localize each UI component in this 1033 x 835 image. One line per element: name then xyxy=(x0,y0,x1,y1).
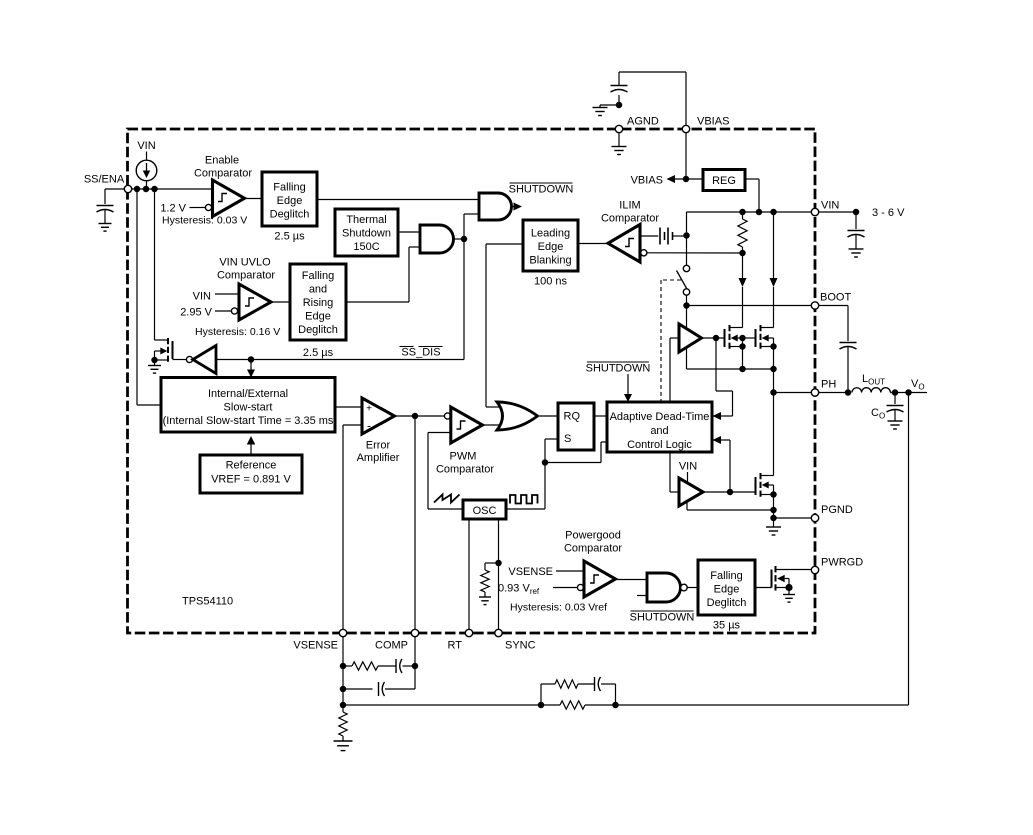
svg-text:and: and xyxy=(309,284,327,296)
hysteresis glyph xyxy=(625,239,634,247)
label VIN UVLO Comparator xyxy=(217,257,275,282)
resistor R2 (feedback lower) xyxy=(339,712,347,736)
wire xyxy=(847,347,849,393)
transistor Q_SS (soft-start discharge FET) xyxy=(155,338,173,365)
svg-text:SHUTDOWN: SHUTDOWN xyxy=(630,612,695,624)
wire SS/ENA external xyxy=(105,189,127,204)
ground (VBIAS cap) xyxy=(593,105,608,116)
wire xyxy=(343,665,352,667)
switch (ILIM controlled) xyxy=(677,265,690,295)
wire xyxy=(890,392,927,394)
label Enable Comparator xyxy=(194,155,252,180)
svg-text:Internal/External: Internal/External xyxy=(208,388,288,400)
label BOOT xyxy=(820,292,851,304)
bubble (inverting input) xyxy=(205,204,211,210)
svg-text:Deglitch: Deglitch xyxy=(298,324,338,336)
driver U_HS (high-side gate driver) xyxy=(679,324,702,352)
wire deglitch to AND xyxy=(317,199,479,201)
pin PH xyxy=(811,389,818,396)
label VIN (uvlo input) xyxy=(193,291,211,303)
wire uvlo deglitch to AND xyxy=(346,247,420,302)
label LOUT xyxy=(862,373,885,387)
wire xyxy=(686,236,688,266)
op-amp U_UVLO (VIN UVLO comparator) xyxy=(239,284,271,320)
wire xyxy=(687,587,698,589)
wire with arrow (VIN to FET2 drain) xyxy=(770,212,778,328)
block OSC xyxy=(463,500,506,519)
wire VSENSE external xyxy=(342,637,344,712)
svg-text:PWM: PWM xyxy=(450,451,477,463)
wire feedback bottom xyxy=(343,704,541,706)
wire REG to VIN rail xyxy=(745,179,759,212)
op-amp U_PG (powergood comparator) xyxy=(584,561,616,597)
wire S input path xyxy=(545,439,558,463)
transistor Q3 (low-side NFET) xyxy=(756,473,774,497)
hysteresis glyph xyxy=(245,298,254,306)
label VIN xyxy=(821,200,839,212)
capacitor C_P (comp pole) xyxy=(379,682,385,696)
svg-text:3 - 6 V: 3 - 6 V xyxy=(872,207,905,219)
svg-text:and: and xyxy=(650,425,668,437)
label VIN (current source supply) xyxy=(137,140,155,152)
svg-text:Comparator: Comparator xyxy=(601,213,659,225)
svg-text:VIN UVLO: VIN UVLO xyxy=(219,257,271,269)
wire 1.2V input xyxy=(190,207,206,209)
pin BOOT xyxy=(811,302,818,309)
wire xyxy=(342,736,344,741)
block Reference VREF xyxy=(200,455,302,493)
wire COMP external xyxy=(414,637,416,689)
capacitor C_O xyxy=(887,406,904,413)
svg-text:2.5 µs: 2.5 µs xyxy=(303,347,334,359)
node xyxy=(739,366,777,373)
block Adaptive Dead-Time and Control Logic xyxy=(607,402,712,452)
label SHUTDOWN (net, overline) xyxy=(509,183,574,196)
hysteresis glyph xyxy=(590,575,599,583)
wire SYNC pulldown xyxy=(485,563,499,570)
transistor Q1 (high-side NFET) xyxy=(725,325,743,349)
capacitor C_IN xyxy=(848,231,865,238)
wire (dashed control from ILIM) xyxy=(661,280,681,402)
node xyxy=(612,702,619,709)
wire xyxy=(686,295,688,305)
arrow xyxy=(624,394,632,402)
svg-text:Edge: Edge xyxy=(714,584,740,596)
svg-text:SS_DIS: SS_DIS xyxy=(401,347,440,359)
label SHUTDOWN (pg gate input) xyxy=(630,611,695,624)
svg-text:1.2 V: 1.2 V xyxy=(160,203,186,215)
wire xyxy=(553,587,577,589)
svg-text:Amplifier: Amplifier xyxy=(357,452,400,464)
svg-text:Comparator: Comparator xyxy=(217,270,275,282)
OR gate (PWM/ILIM) xyxy=(497,402,538,430)
capacitor C_Z xyxy=(396,659,402,673)
svg-text:VBIAS: VBIAS xyxy=(631,175,663,187)
svg-text:+: + xyxy=(366,404,372,415)
wire xyxy=(271,301,290,303)
svg-text:Edge: Edge xyxy=(277,195,303,207)
ground xyxy=(479,597,491,605)
svg-text:ILIM: ILIM xyxy=(619,200,640,212)
wire (drain up to PH) xyxy=(773,393,775,476)
wire AND output xyxy=(453,238,464,240)
label VBIAS xyxy=(697,116,729,128)
svg-text:RQ: RQ xyxy=(564,411,581,423)
svg-text:Enable: Enable xyxy=(205,155,239,167)
node (PH node) xyxy=(770,389,777,396)
wire (BOOT to driver top) xyxy=(686,306,688,330)
wire (SS/ENA to slow-start) xyxy=(137,189,161,405)
svg-text:Comparator: Comparator xyxy=(194,168,252,180)
svg-text:COMP: COMP xyxy=(375,640,408,652)
IC boundary (dashed border of TPS54110) xyxy=(128,129,816,633)
wire xyxy=(601,684,616,705)
svg-text:-: - xyxy=(367,419,371,433)
wire SS/ENA internal rail xyxy=(128,188,213,190)
block Internal/External Slow-start xyxy=(161,378,335,433)
svg-text:SYNC: SYNC xyxy=(505,640,536,652)
node xyxy=(683,232,690,239)
wire xyxy=(146,181,148,189)
wire xyxy=(742,338,744,369)
node xyxy=(340,702,347,709)
label 100 ns xyxy=(534,276,568,288)
node (SS/ENA taps) xyxy=(134,186,158,193)
block Falling Edge Deglitch (35us) xyxy=(698,560,755,615)
wire xyxy=(146,152,148,161)
pin SS/ENA label xyxy=(84,174,125,186)
svg-text:BOOT: BOOT xyxy=(820,292,851,304)
wire to shutdown AND xyxy=(464,214,479,239)
wire (to discharge FET) xyxy=(154,189,156,340)
resistor (SYNC pulldown) xyxy=(481,570,489,592)
svg-text:SHUTDOWN: SHUTDOWN xyxy=(509,184,574,196)
label PWRGD xyxy=(821,557,863,569)
pin SYNC xyxy=(495,629,502,636)
label CO xyxy=(871,407,885,421)
wire LS driver output xyxy=(703,491,756,493)
svg-text:150C: 150C xyxy=(353,241,379,253)
svg-text:VIN: VIN xyxy=(193,291,211,303)
node xyxy=(151,357,158,364)
wire VBIAS bypass cap xyxy=(619,72,686,125)
pin VSENSE xyxy=(339,629,346,636)
wire error amp inverting input xyxy=(343,425,362,632)
label VO xyxy=(911,378,925,392)
latch RQ/S xyxy=(558,403,594,450)
op-amp U_PWM (PWM comparator) xyxy=(451,407,483,443)
svg-text:Falling: Falling xyxy=(273,182,305,194)
op-amp U_EN (enable comparator) xyxy=(213,180,245,217)
arrow (VBIAS net, points left) xyxy=(667,175,676,183)
node xyxy=(892,389,912,396)
label 0.93 Vref xyxy=(498,583,540,597)
svg-text:Thermal: Thermal xyxy=(346,214,386,226)
node xyxy=(770,491,777,498)
node xyxy=(785,584,792,591)
wire xyxy=(600,104,619,106)
wire latch to control xyxy=(594,415,607,417)
pin VBIAS (top) xyxy=(682,125,689,132)
wire BOOT external xyxy=(819,306,848,342)
node xyxy=(412,413,419,420)
wire xyxy=(250,360,252,371)
svg-text:Hysteresis: 0.03 Vref: Hysteresis: 0.03 Vref xyxy=(510,602,607,614)
op-amp U_ILIM (current limit comparator, points left) xyxy=(608,225,640,263)
wire ILIM to LEB xyxy=(578,243,609,245)
block Leading Edge Blanking (100ns) xyxy=(523,220,578,271)
op-amp U_EA (error amplifier) xyxy=(362,398,395,434)
wire xyxy=(773,485,775,518)
label SYNC xyxy=(505,640,536,652)
pin AGND xyxy=(615,125,622,132)
waveform glyph (clock pulses) xyxy=(510,495,538,504)
svg-text:Edge: Edge xyxy=(305,311,331,323)
wire xyxy=(894,410,896,421)
wire ILIM sense input xyxy=(647,252,743,254)
current source I_SS (circle with down arrow) xyxy=(136,160,157,181)
node xyxy=(616,102,623,109)
label Hysteresis: 0.03 Vref xyxy=(510,602,607,614)
wire xyxy=(484,592,486,597)
label VIN (LS driver supply) xyxy=(679,461,697,473)
wire xyxy=(755,587,772,589)
bubble (inverting input) xyxy=(231,308,237,314)
wire (driver ground rail) xyxy=(687,502,774,511)
wire RT drop xyxy=(468,519,470,632)
ground xyxy=(783,588,795,603)
svg-text:Comparator: Comparator xyxy=(436,464,494,476)
transistor Q_PG (PWRGD open-drain FET) xyxy=(772,566,816,591)
wire error amp output xyxy=(395,415,445,417)
wire xyxy=(855,212,857,229)
pin PGND xyxy=(811,514,818,521)
wire xyxy=(855,235,857,249)
svg-text:VSENSE: VSENSE xyxy=(508,566,553,578)
wire comparator to deglitch xyxy=(245,198,263,200)
arrow into control logic (from LS gate) xyxy=(713,436,722,444)
label Powergood Comparator xyxy=(564,530,622,555)
wire (VO feedback drop) xyxy=(908,393,910,706)
wire xyxy=(378,665,396,667)
label Hysteresis: 0.16 V xyxy=(195,326,280,338)
svg-text:SS/ENA: SS/ENA xyxy=(84,174,125,186)
wire BOOT row xyxy=(687,305,816,307)
ground (power ground) xyxy=(766,518,781,535)
AND gate (powergood/shutdown NAND) xyxy=(647,573,681,602)
hysteresis glyph xyxy=(218,194,227,202)
wire xyxy=(640,235,658,237)
wire xyxy=(215,310,231,312)
svg-text:PH: PH xyxy=(821,379,836,391)
resistor R_FF (feedforward) xyxy=(555,680,578,688)
label 3 - 6 V xyxy=(872,207,905,219)
label 2.5 us xyxy=(274,231,305,243)
node xyxy=(542,459,549,466)
node xyxy=(727,489,734,496)
wire xyxy=(675,178,703,180)
label 35 us xyxy=(713,620,741,632)
resistor R_Z (comp zero) xyxy=(352,662,378,670)
label TPS54110 xyxy=(182,596,233,608)
svg-text:AGND: AGND xyxy=(627,116,659,128)
wire xyxy=(343,688,373,690)
pin COMP xyxy=(411,629,418,636)
wire COMP drop xyxy=(414,416,416,632)
wire xyxy=(673,235,687,237)
arrow into control logic xyxy=(713,412,722,420)
label ILIM Comparator xyxy=(601,200,659,225)
svg-text:Slow-start: Slow-start xyxy=(224,402,273,414)
node xyxy=(683,176,690,183)
label PWM Comparator xyxy=(436,451,494,476)
pin SS/ENA xyxy=(124,185,131,192)
node xyxy=(739,209,777,216)
wire (shutdown stub) xyxy=(637,595,647,597)
label + - xyxy=(366,404,372,433)
wire xyxy=(585,704,616,706)
pin RT xyxy=(465,629,472,636)
block REG (linear regulator) xyxy=(703,170,745,191)
wire (S node to OSC) xyxy=(506,463,545,510)
wire VBIAS internal xyxy=(685,133,687,179)
svg-text:VIN: VIN xyxy=(137,140,155,152)
wire (to FET2 gate) xyxy=(743,337,756,339)
wire (driver bottom to PH rail) xyxy=(687,347,774,369)
svg-text:Falling: Falling xyxy=(302,270,334,282)
wire xyxy=(541,704,560,706)
svg-text:Falling: Falling xyxy=(710,570,742,582)
wire LEB to OR gate xyxy=(486,244,523,407)
wire xyxy=(616,579,648,581)
block Falling and Rising Edge Deglitch (2.5us) xyxy=(290,264,346,340)
ground (soft-start cap) xyxy=(99,224,112,232)
svg-text:SHUTDOWN: SHUTDOWN xyxy=(586,363,651,375)
wire OR to latch xyxy=(538,415,559,417)
wire driver output xyxy=(702,337,725,339)
svg-text:Rising: Rising xyxy=(303,297,334,309)
label 2.95 V xyxy=(180,307,212,319)
wire VIN external xyxy=(819,211,856,213)
wire xyxy=(512,206,515,208)
svg-text:Blanking: Blanking xyxy=(529,255,571,267)
svg-text:2.5 µs: 2.5 µs xyxy=(274,231,305,243)
node xyxy=(461,236,468,243)
capacitor (VBIAS bypass) xyxy=(611,86,628,93)
node xyxy=(713,335,720,342)
label 2.5 us xyxy=(303,347,334,359)
svg-text:Shutdown: Shutdown xyxy=(342,228,391,240)
label VBIAS (net) xyxy=(631,175,663,187)
node xyxy=(845,389,852,396)
node xyxy=(770,507,777,514)
wire xyxy=(215,293,239,295)
hysteresis glyph xyxy=(457,421,466,429)
ground xyxy=(334,741,353,751)
ground (internal AGND) xyxy=(612,133,627,155)
wire SS_DIS vertical xyxy=(463,239,465,360)
AND gate (thermal/UVLO) xyxy=(420,225,454,253)
label Error Amplifier xyxy=(357,440,400,465)
inverter U_INV (points left) xyxy=(193,346,216,374)
ground xyxy=(849,249,864,257)
wire PGND row xyxy=(774,517,816,519)
label PGND xyxy=(821,504,853,516)
wire xyxy=(686,212,688,235)
svg-text:PWRGD: PWRGD xyxy=(821,557,863,569)
wire with arrow (to high-side FET drain) xyxy=(739,253,747,328)
node xyxy=(739,335,746,350)
svg-text:2.95 V: 2.95 V xyxy=(180,307,212,319)
svg-text:Deglitch: Deglitch xyxy=(270,209,310,221)
wire slow-start to error amp xyxy=(335,406,362,408)
svg-text:100 ns: 100 ns xyxy=(534,276,568,288)
wire thermal to AND xyxy=(398,231,420,233)
node xyxy=(248,356,255,363)
svg-text:Edge: Edge xyxy=(538,241,564,253)
svg-text:PGND: PGND xyxy=(821,504,853,516)
svg-text:VREF = 0.891 V: VREF = 0.891 V xyxy=(211,474,291,486)
wire reference to slow-start xyxy=(250,444,252,456)
bubble (NAND output) xyxy=(681,584,688,591)
svg-text:(Internal Slow-start Time = 3.: (Internal Slow-start Time = 3.35 ms xyxy=(163,415,334,427)
node xyxy=(340,663,419,670)
wire xyxy=(541,684,555,705)
wire PH row xyxy=(774,392,816,394)
wire VIN rail xyxy=(687,211,816,213)
bubble (inverter output) xyxy=(186,356,192,362)
inductor L_OUT xyxy=(852,388,890,393)
node xyxy=(340,686,347,693)
transistor Q2 (high-side NFET b) xyxy=(756,325,774,349)
wire PWM output xyxy=(483,424,502,426)
wire xyxy=(720,440,731,492)
capacitor C_FF xyxy=(595,677,601,691)
block Thermal Shutdown 150C xyxy=(335,209,398,256)
label SHUTDOWN (into control logic) xyxy=(586,362,651,375)
svg-text:Leading: Leading xyxy=(531,228,570,240)
wire (HS driver input from control logic) xyxy=(670,338,679,402)
bubble (PWM inverting input) xyxy=(444,413,450,419)
svg-text:Hysteresis: 0.03 V: Hysteresis: 0.03 V xyxy=(162,215,247,227)
svg-text:S: S xyxy=(564,433,571,445)
svg-text:VIN: VIN xyxy=(679,461,697,473)
capacitor C_SS (soft-start cap) xyxy=(97,206,114,213)
wire xyxy=(894,393,896,405)
wire xyxy=(403,665,416,667)
wire xyxy=(687,472,689,482)
node xyxy=(770,343,777,350)
label PH xyxy=(821,379,836,391)
wire xyxy=(104,210,106,223)
svg-text:Control Logic: Control Logic xyxy=(627,439,692,451)
pin VIN xyxy=(811,208,818,215)
svg-text:OSC: OSC xyxy=(473,505,497,517)
wire SYNC drop xyxy=(498,519,500,632)
bubble (ILIM inverting input) xyxy=(641,250,647,256)
wire (gate node feedback down) xyxy=(716,338,733,416)
block Falling Edge Deglitch (enable, 2.5us) xyxy=(262,172,317,226)
wire OSC ramp to PWM xyxy=(428,433,463,510)
node (PGND node) xyxy=(770,515,777,522)
waveform glyph (ramp/sawtooth) xyxy=(434,495,460,503)
node xyxy=(538,702,545,709)
node xyxy=(739,250,746,257)
resistor R1 (feedback upper) xyxy=(560,701,585,709)
svg-text:Reference: Reference xyxy=(226,460,277,472)
arrow xyxy=(247,436,256,445)
arrow SHUTDOWN output xyxy=(514,203,523,211)
